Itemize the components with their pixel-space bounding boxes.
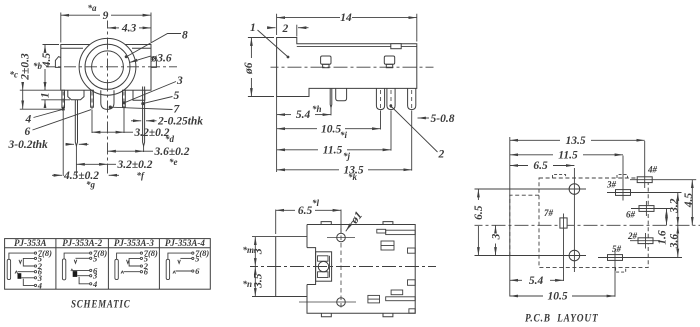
ext right blade down <box>143 146 145 152</box>
ext pin4 down <box>91 110 93 133</box>
dim 3.2 right line <box>677 193 679 226</box>
dim 5.4 line <box>277 114 291 116</box>
svg-text:*c: *c <box>10 70 19 80</box>
cell3 jack barrel <box>115 259 118 279</box>
middle circle <box>85 44 130 89</box>
label 7 leader <box>111 107 173 109</box>
dim 6.5 left line <box>477 189 479 200</box>
pin 5 dot node <box>122 101 125 104</box>
dim 4.5 right line <box>691 180 693 226</box>
svg-text:3.2: 3.2 <box>669 198 681 214</box>
svg-text:5: 5 <box>195 253 200 263</box>
switch inner top rect <box>318 256 329 261</box>
svg-text:7#: 7# <box>544 208 554 218</box>
svg-text:6.5: 6.5 <box>298 205 313 217</box>
svg-text:2: 2 <box>438 149 445 161</box>
bottom view barrel top edge <box>252 236 307 238</box>
dim 9 extension lines <box>61 13 151 43</box>
cell3 term 5 <box>140 257 142 259</box>
side centerline <box>271 66 434 68</box>
svg-text:9: 9 <box>103 10 109 22</box>
cell1 caret contact <box>15 271 18 274</box>
dim 3 left line <box>495 225 497 230</box>
svg-text:3#: 3# <box>606 180 617 190</box>
side long pin A <box>376 88 384 109</box>
cell1 wire to 6 <box>18 271 35 273</box>
label 8 leader <box>126 34 181 57</box>
svg-text:*d: *d <box>165 134 175 144</box>
cell1 term 6 <box>34 271 36 273</box>
svg-text:2#: 2# <box>627 231 638 241</box>
cell4 wire to 7 <box>168 253 192 259</box>
ext left blade down <box>75 146 77 176</box>
cell2 caret contact <box>71 269 73 271</box>
side view top-right notch <box>391 44 401 49</box>
cell2 wire to 3 <box>77 275 89 277</box>
cell1 term 5 <box>34 257 36 259</box>
cell1 V contact <box>19 260 22 264</box>
bottom view barrel left edge <box>275 237 277 297</box>
cell4 jack barrel <box>166 259 169 279</box>
pcb left ref line <box>509 137 511 297</box>
svg-text:1: 1 <box>250 22 256 34</box>
svg-text:5.4: 5.4 <box>296 109 311 121</box>
label 4 leader <box>34 109 63 117</box>
dim 4.5 top tick <box>43 44 60 46</box>
side long pin B <box>387 88 395 109</box>
side needle pin <box>330 88 332 107</box>
svg-text:ø3.6: ø3.6 <box>151 53 172 65</box>
bottom view body outline <box>307 225 415 314</box>
pcb dashed top tab 1 <box>553 175 566 178</box>
svg-text:7: 7 <box>174 104 181 116</box>
svg-text:6.5: 6.5 <box>473 205 485 220</box>
svg-text:4: 4 <box>92 279 97 289</box>
label 5 leader <box>143 97 172 104</box>
cell2 term 7(8) <box>90 252 92 254</box>
switch right bar <box>329 256 331 278</box>
dim 2 arrows <box>268 27 276 29</box>
switch circle <box>318 261 328 271</box>
svg-text:2: 2 <box>282 23 289 35</box>
dim 4.5 line <box>44 45 46 52</box>
bottom view centerline <box>250 266 436 268</box>
bottom view left notch <box>307 248 316 285</box>
svg-text:8: 8 <box>182 30 188 42</box>
phi6 dim line <box>250 38 252 59</box>
side long pin C <box>408 88 416 109</box>
svg-text:3.5: 3.5 <box>253 273 265 289</box>
cell4 wire to 6 <box>176 270 192 272</box>
svg-text:PJ-353A: PJ-353A <box>14 238 47 248</box>
side window square 2 <box>384 56 394 64</box>
dim 3.6 e line <box>108 150 144 152</box>
dim 2+-0.3 line <box>22 84 24 90</box>
side view outline <box>277 38 417 97</box>
svg-text:3: 3 <box>176 75 183 87</box>
pad 3# <box>616 190 631 196</box>
svg-text:3.2±0.2: 3.2±0.2 <box>117 159 153 171</box>
pin 1 left thin pin <box>62 90 65 107</box>
upper hole cross line <box>327 237 355 239</box>
dim 3.6 right line <box>677 225 679 257</box>
ext needle down <box>330 108 332 115</box>
cell2 wire to 6 <box>73 269 90 271</box>
bottom view bottom tab 2 <box>383 313 393 317</box>
pad 5# <box>608 255 623 261</box>
cell1 wire to 4 <box>23 279 34 286</box>
dim 1 tick <box>41 99 70 101</box>
cell4 V contact <box>178 260 181 264</box>
svg-text:PJ-353A-2: PJ-353A-2 <box>62 238 102 248</box>
cell1 term 2 <box>34 265 36 267</box>
dim 3.5 n line <box>254 267 256 297</box>
dim 6.5 top line <box>510 165 528 167</box>
ext 3 col <box>622 156 624 186</box>
svg-text:6#: 6# <box>626 210 636 220</box>
lower hole <box>337 298 346 307</box>
cell1 term 4 <box>34 284 36 286</box>
ext pin5 down <box>123 108 125 133</box>
label 6 leader <box>33 110 92 130</box>
dim 14 ext lines <box>277 14 417 42</box>
slot C right edge <box>408 248 416 253</box>
cell1 wire to 3 <box>21 277 34 279</box>
svg-text:2±0.3: 2±0.3 <box>20 53 32 81</box>
svg-text:3: 3 <box>253 248 265 255</box>
cell4 term 5 <box>192 257 194 259</box>
hole axis vertical dashes <box>340 228 342 308</box>
phi6 ticks <box>248 38 274 97</box>
cell1 jack barrel <box>7 259 10 279</box>
dim 2-0.25thk arrows <box>131 120 141 122</box>
inner circle phi3.6 bore <box>92 51 124 83</box>
svg-text:10.5: 10.5 <box>321 123 341 135</box>
dim 10.5 line <box>277 128 317 130</box>
dim 4.5 g arrows outside <box>52 174 62 176</box>
svg-text:ø6: ø6 <box>243 62 255 75</box>
dim 6.5 l line <box>276 209 295 211</box>
switch outer rect <box>316 252 332 281</box>
dim 11.5 line <box>510 154 553 156</box>
svg-text:*m: *m <box>243 245 255 255</box>
svg-text:4.5: 4.5 <box>41 53 53 69</box>
svg-text:*l: *l <box>312 198 320 208</box>
svg-text:*f: *f <box>137 171 146 181</box>
svg-text:*i: *i <box>340 130 348 140</box>
dim 11.5 line <box>277 149 318 151</box>
horizontal centerline <box>46 66 177 68</box>
dim 6.5 l ext left <box>275 210 277 235</box>
side stub pin <box>336 88 347 100</box>
dim 10.5 bottom line <box>510 295 543 297</box>
svg-text:1.6: 1.6 <box>657 230 669 245</box>
slot E <box>391 290 403 295</box>
svg-text:11.5: 11.5 <box>323 144 343 156</box>
cell1 term 3 <box>34 277 36 279</box>
cell2 term 6 <box>90 269 92 271</box>
front view left side tab <box>55 57 60 68</box>
svg-text:5-0.8: 5-0.8 <box>431 113 455 125</box>
cell2 term 4 <box>90 283 92 285</box>
label 2 pin leader <box>391 106 438 152</box>
dim 1 arrows <box>44 84 46 91</box>
svg-text:*n: *n <box>243 279 253 289</box>
svg-text:4.3: 4.3 <box>121 22 137 34</box>
svg-text:4: 4 <box>25 114 32 126</box>
pad 6# <box>639 206 654 212</box>
pin 4 inner left thin pin <box>91 90 94 107</box>
front view flange line right <box>132 47 151 49</box>
ext pin1 down <box>62 111 64 176</box>
pad 7# <box>560 218 567 228</box>
svg-text:*g: *g <box>86 180 96 190</box>
svg-text:P.C.B LAYOUT: P.C.B LAYOUT <box>525 313 599 325</box>
cell2 term 5 <box>90 257 92 259</box>
svg-text:4: 4 <box>37 280 42 290</box>
dim 13.5 line <box>277 169 339 171</box>
front view flange line left <box>61 47 83 49</box>
switch inner bottom rect <box>318 272 329 278</box>
pcb hole vertical line <box>573 168 575 272</box>
svg-text:6: 6 <box>25 126 31 138</box>
central pin U <box>101 90 114 109</box>
bottom view barrel bottom edge <box>252 296 307 298</box>
front view body outline <box>61 45 151 91</box>
cell2 wire to 7 <box>64 253 90 259</box>
svg-text:5.4: 5.4 <box>529 275 544 287</box>
svg-text:5#: 5# <box>612 244 622 254</box>
cell4 caret contact <box>173 271 176 274</box>
table column lines <box>56 239 159 290</box>
dim 5-0.8 arrow <box>418 117 430 119</box>
cell2 wire to 4 <box>79 277 90 284</box>
cell2 V contact <box>74 260 77 264</box>
pcb lower hole <box>569 250 580 261</box>
cell2 term 3 <box>90 275 92 277</box>
cell1 tip contact black <box>18 273 22 279</box>
outer circle <box>79 38 136 95</box>
pcb centerline <box>475 224 700 226</box>
dim 2 ext line <box>296 25 298 37</box>
svg-text:*e: *e <box>169 157 178 167</box>
svg-text:6.5: 6.5 <box>533 160 548 172</box>
phi3.6 leader <box>129 56 151 63</box>
ext pinA down <box>380 111 382 130</box>
slot F long <box>386 297 416 301</box>
svg-text:11.5: 11.5 <box>558 149 578 161</box>
pcb dashed bottom tab <box>616 268 626 273</box>
pad 2# <box>638 238 653 244</box>
svg-text:6: 6 <box>195 266 200 276</box>
pin dot row ext <box>20 108 63 110</box>
dim 3.2 f line <box>76 163 107 165</box>
pcb upper hole <box>569 184 580 195</box>
side chains left ref ext <box>276 97 278 173</box>
svg-text:4#: 4# <box>647 165 658 175</box>
slot H bottom corner <box>409 309 415 313</box>
pcb upper hole row line <box>475 188 587 190</box>
svg-text:*b: *b <box>33 61 43 71</box>
cell3 caret contact <box>121 271 124 274</box>
svg-text:*h: *h <box>312 104 322 114</box>
pin 2 left block <box>68 90 84 100</box>
lower hole cross line <box>299 301 356 303</box>
cell3 V contact <box>127 260 130 264</box>
dim 3-0.2thk arrows <box>66 143 75 145</box>
dim 4.3 line <box>108 27 120 29</box>
cell3 term 7(8) <box>140 252 142 254</box>
svg-text:SCHEMATIC: SCHEMATIC <box>71 299 131 311</box>
dim 9 line <box>61 14 100 16</box>
svg-text:2-0.25thk: 2-0.25thk <box>157 116 203 128</box>
pad 4# <box>637 177 652 183</box>
svg-text:3.6: 3.6 <box>669 234 681 250</box>
pin 5 inner right thin pin <box>123 90 126 107</box>
slot D right edge <box>408 280 416 286</box>
pcb dashed main outline <box>539 178 648 268</box>
dim 1.6 right line <box>666 209 668 226</box>
cell3 wire 5 to 2 <box>129 258 140 266</box>
svg-text:3.6±0.2: 3.6±0.2 <box>154 146 190 158</box>
cell3 wire to 7 <box>117 253 141 259</box>
dim 3 m line <box>254 237 256 267</box>
svg-text:*a: *a <box>88 3 98 13</box>
pcb lower hole row line <box>475 255 587 257</box>
table header line <box>5 247 211 249</box>
right notch <box>133 90 145 100</box>
upper hole <box>337 233 346 242</box>
cell4 wire 5 <box>180 257 191 259</box>
schematic table frame <box>5 239 211 290</box>
ext pinC down <box>411 111 413 171</box>
body bottom ext left <box>20 89 61 91</box>
label 1 leader <box>258 30 289 57</box>
vertical centerline <box>107 21 109 174</box>
bottom view top tab 2 <box>383 222 393 225</box>
cell2 wire 5 <box>76 257 90 259</box>
cell2 jack barrel <box>62 259 65 280</box>
pin 1 dot node <box>62 108 65 111</box>
svg-text:13.5: 13.5 <box>565 135 585 147</box>
right blade pin 2-0.25thk <box>143 87 145 147</box>
dim 3.2 d line <box>92 131 124 133</box>
slot G <box>368 295 380 303</box>
slot A long <box>386 230 416 234</box>
cell3 wire to 6 <box>124 271 141 273</box>
svg-text:5: 5 <box>174 90 180 102</box>
central pin dot node <box>109 106 112 109</box>
phi1 leader <box>346 221 353 231</box>
cell1 wire to 7 <box>9 253 35 259</box>
svg-text:PJ-353A-4: PJ-353A-4 <box>165 238 205 248</box>
svg-text:6: 6 <box>144 267 149 277</box>
svg-text:*j: *j <box>343 151 351 161</box>
slot B <box>381 241 394 250</box>
slot A small <box>377 229 386 233</box>
label 3 leader <box>125 82 176 103</box>
svg-text:PJ-353A-3: PJ-353A-3 <box>114 238 154 248</box>
cell1 term 7(8) <box>34 252 36 254</box>
side view inner top line <box>297 45 417 47</box>
right blade dot node <box>141 102 144 105</box>
cell2 tip contact black <box>73 271 78 277</box>
cell3 term 2 <box>140 265 142 267</box>
svg-text:1: 1 <box>40 92 52 98</box>
dim 13.5 line <box>510 139 560 141</box>
dim 14 line <box>277 17 340 19</box>
ext 5 col down <box>614 265 616 297</box>
ext pinB down <box>390 111 392 151</box>
dim 6.5 l ext right through hole <box>340 210 342 234</box>
dim 5.4 bottom line <box>510 279 522 281</box>
svg-text:4.5: 4.5 <box>683 193 695 209</box>
side window square 1 <box>321 56 331 64</box>
pcb dashed top tab 2 <box>617 175 628 178</box>
bottom view bottom tab 1 <box>321 313 331 317</box>
bottom view top tab 1 <box>321 222 331 225</box>
cell3 term 6 <box>140 271 142 273</box>
front view right side tab <box>151 57 156 68</box>
cell4 term 6 <box>192 270 194 272</box>
svg-text:14: 14 <box>340 12 352 24</box>
ext 4 col <box>644 141 646 172</box>
cell1 wire 5 to 2 <box>23 258 34 266</box>
left blade pin 3-0.2thk <box>75 100 77 146</box>
ext 7 col down <box>563 233 565 281</box>
svg-text:3: 3 <box>490 233 502 240</box>
svg-text:*k: *k <box>348 172 358 182</box>
svg-text:10.5: 10.5 <box>547 291 567 303</box>
pcb dashed barrel outline <box>510 195 539 255</box>
cell4 term 7(8) <box>192 252 194 254</box>
svg-text:3-0.2thk: 3-0.2thk <box>8 139 49 151</box>
